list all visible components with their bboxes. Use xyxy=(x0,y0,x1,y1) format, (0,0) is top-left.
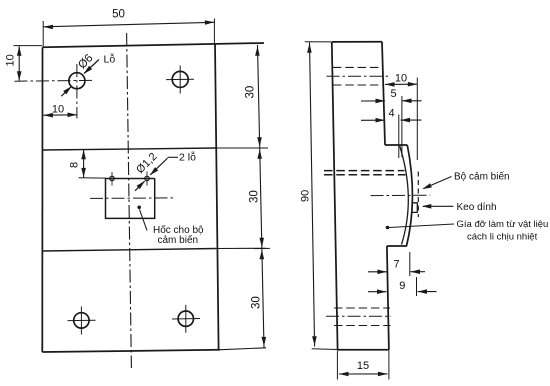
svg-text:10: 10 xyxy=(52,104,64,116)
svg-text:30: 30 xyxy=(245,86,257,99)
svg-text:5: 5 xyxy=(390,88,396,100)
svg-text:Keo dính: Keo dính xyxy=(457,202,497,213)
svg-text:4: 4 xyxy=(388,108,394,120)
svg-text:Bộ cảm biến: Bộ cảm biến xyxy=(454,171,510,183)
svg-text:9: 9 xyxy=(399,280,405,292)
svg-text:10: 10 xyxy=(395,73,407,85)
svg-text:cảm biến: cảm biến xyxy=(158,234,199,246)
svg-text:30: 30 xyxy=(249,190,261,203)
svg-text:8: 8 xyxy=(69,162,81,168)
svg-text:10: 10 xyxy=(5,54,17,66)
svg-text:Lỗ: Lỗ xyxy=(104,53,116,66)
svg-text:7: 7 xyxy=(393,259,399,271)
svg-text:15: 15 xyxy=(357,360,369,372)
svg-text:cách li chịu nhiệt: cách li chịu nhiệt xyxy=(467,231,538,242)
svg-text:30: 30 xyxy=(251,296,263,309)
svg-text:2 lỗ: 2 lỗ xyxy=(179,151,196,164)
svg-text:Gía đỡ làm từ vật liệu: Gía đỡ làm từ vật liệu xyxy=(457,219,549,230)
svg-text:50: 50 xyxy=(112,9,125,21)
svg-text:90: 90 xyxy=(300,190,312,202)
